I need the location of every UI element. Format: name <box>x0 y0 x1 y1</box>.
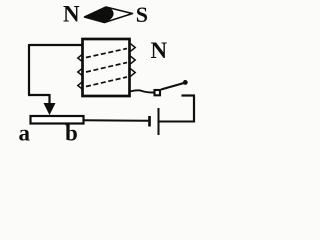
wire right vertical <box>193 96 195 123</box>
wire left vertical <box>28 44 30 95</box>
svg-text:a: a <box>19 121 31 146</box>
battery long plate <box>158 108 160 135</box>
svg-text:b: b <box>65 121 78 146</box>
svg-text:N: N <box>151 38 168 63</box>
coil winding dashed turn 2 <box>86 63 127 73</box>
wire coil top-left to left side <box>29 44 83 46</box>
slider arrow stem <box>48 94 50 105</box>
svg-text:N: N <box>63 2 80 27</box>
coil right chevron 3 <box>131 69 136 77</box>
coil winding dashed turn 1 <box>86 49 127 58</box>
coil left chevron 1 <box>78 54 83 62</box>
wire battery to right side <box>160 121 196 123</box>
coil / solenoid core rectangle <box>83 39 130 96</box>
svg-text:S: S <box>136 2 148 27</box>
rheostat body <box>31 116 84 124</box>
coil winding dashed turn 3 <box>86 77 127 87</box>
wire coil to switch <box>130 90 154 92</box>
coil left chevron 3 <box>78 82 83 90</box>
wire to slider arrow <box>28 94 50 96</box>
switch lever knob <box>183 80 188 85</box>
compass needle filled N half <box>85 7 114 23</box>
switch fixed contact bar <box>182 94 196 96</box>
switch terminal block <box>155 90 161 95</box>
slider arrowhead <box>44 104 54 115</box>
coil left chevron 2 <box>78 68 83 76</box>
wire rheostat to battery <box>84 119 148 122</box>
switch lever <box>161 83 184 90</box>
coil right chevron 1 <box>131 44 136 52</box>
compass needle outline (S half, hollow) <box>85 7 133 23</box>
battery short plate <box>148 116 151 127</box>
coil right chevron 2 <box>131 56 136 64</box>
